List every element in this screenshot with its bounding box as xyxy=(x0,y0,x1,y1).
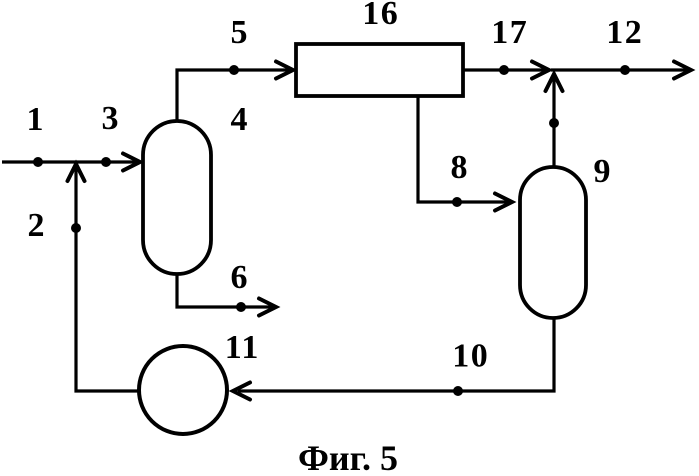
svg-text:4: 4 xyxy=(231,101,248,138)
svg-text:6: 6 xyxy=(231,259,248,296)
svg-text:2: 2 xyxy=(28,207,45,244)
svg-text:17: 17 xyxy=(491,14,528,51)
svg-text:16: 16 xyxy=(362,0,399,32)
svg-text:Фиг. 5: Фиг. 5 xyxy=(298,438,398,476)
svg-text:10: 10 xyxy=(452,338,489,375)
svg-text:11: 11 xyxy=(225,329,260,366)
svg-text:12: 12 xyxy=(606,14,643,51)
svg-text:1: 1 xyxy=(27,101,44,138)
svg-text:8: 8 xyxy=(451,149,468,186)
svg-text:5: 5 xyxy=(231,14,248,51)
svg-text:3: 3 xyxy=(102,100,119,137)
svg-text:9: 9 xyxy=(594,153,611,190)
